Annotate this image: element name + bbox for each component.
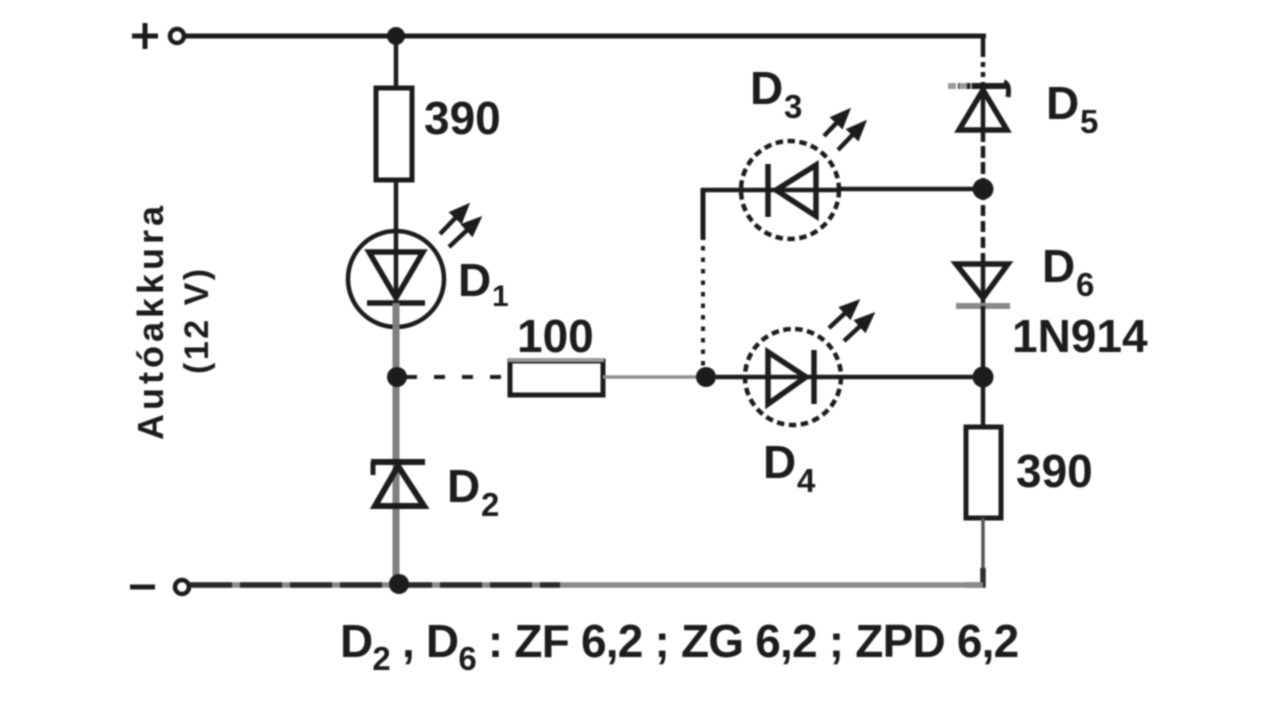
wire top rail	[185, 34, 986, 39]
svg-text:5: 5	[1080, 103, 1098, 140]
node B junction	[696, 367, 716, 387]
LED D4	[716, 303, 871, 425]
svg-text:Autóakkura: Autóakkura	[130, 202, 171, 440]
svg-text:D: D	[447, 460, 480, 512]
node bottom junction	[389, 574, 409, 594]
resistor R3 390	[966, 427, 1001, 518]
svg-text:1: 1	[492, 280, 509, 313]
wire R1 to D1	[394, 180, 399, 233]
plus terminal symbol	[132, 23, 158, 49]
svg-text:390: 390	[424, 92, 501, 144]
wire node B up to D3	[701, 238, 705, 377]
wire top rail corner down	[981, 34, 986, 52]
zener D5	[948, 82, 1009, 132]
node top junction	[387, 27, 405, 45]
wire D1 to node A (grey lead)	[393, 303, 400, 584]
wire top to R1	[394, 36, 399, 90]
svg-text:100: 100	[517, 310, 594, 362]
node C junction	[973, 179, 994, 200]
diode D6	[956, 264, 1010, 310]
wire D4 to node D	[841, 375, 983, 380]
wire D5 to node C	[981, 130, 986, 189]
LED D3	[741, 112, 863, 239]
minus terminal symbol	[130, 585, 155, 590]
svg-text:D: D	[1046, 77, 1079, 129]
node D junction	[973, 367, 994, 388]
svg-text:4: 4	[797, 462, 816, 499]
wire D3 to node C	[840, 187, 983, 192]
svg-text:D: D	[1042, 240, 1075, 292]
resistor R1 390	[376, 88, 412, 180]
svg-text:390: 390	[1016, 445, 1093, 497]
resistor R2 100	[510, 361, 603, 395]
terminal circle -	[175, 580, 189, 594]
node A junction	[387, 367, 407, 387]
svg-text:2: 2	[481, 486, 499, 523]
wire D6 to node D	[981, 306, 986, 377]
zener D2	[371, 462, 425, 506]
svg-text:D: D	[763, 436, 796, 488]
svg-text:6: 6	[1076, 266, 1094, 303]
svg-text:(12 V): (12 V)	[178, 266, 216, 374]
svg-text:3: 3	[784, 88, 802, 125]
wire node C to D6	[981, 189, 986, 264]
svg-text:D: D	[458, 254, 491, 306]
wire R2 to node B	[603, 375, 706, 379]
LED D1	[348, 207, 478, 327]
wire R3 to bottom rail	[981, 518, 985, 586]
wire node D to R3	[981, 377, 986, 428]
terminal circle +	[170, 29, 184, 43]
wire bottom rail	[190, 582, 983, 588]
svg-text:D: D	[750, 62, 783, 114]
svg-text:1N914: 1N914	[1012, 310, 1148, 362]
wire node A to R2 (dashed scan)	[406, 375, 510, 379]
